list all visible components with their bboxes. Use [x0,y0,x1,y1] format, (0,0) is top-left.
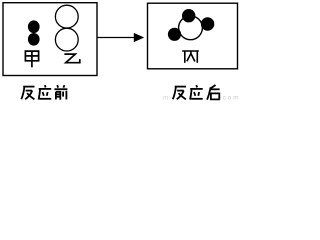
svg-text:. c o m: . c o m [219,95,239,102]
svg-text:m: m [163,95,168,102]
